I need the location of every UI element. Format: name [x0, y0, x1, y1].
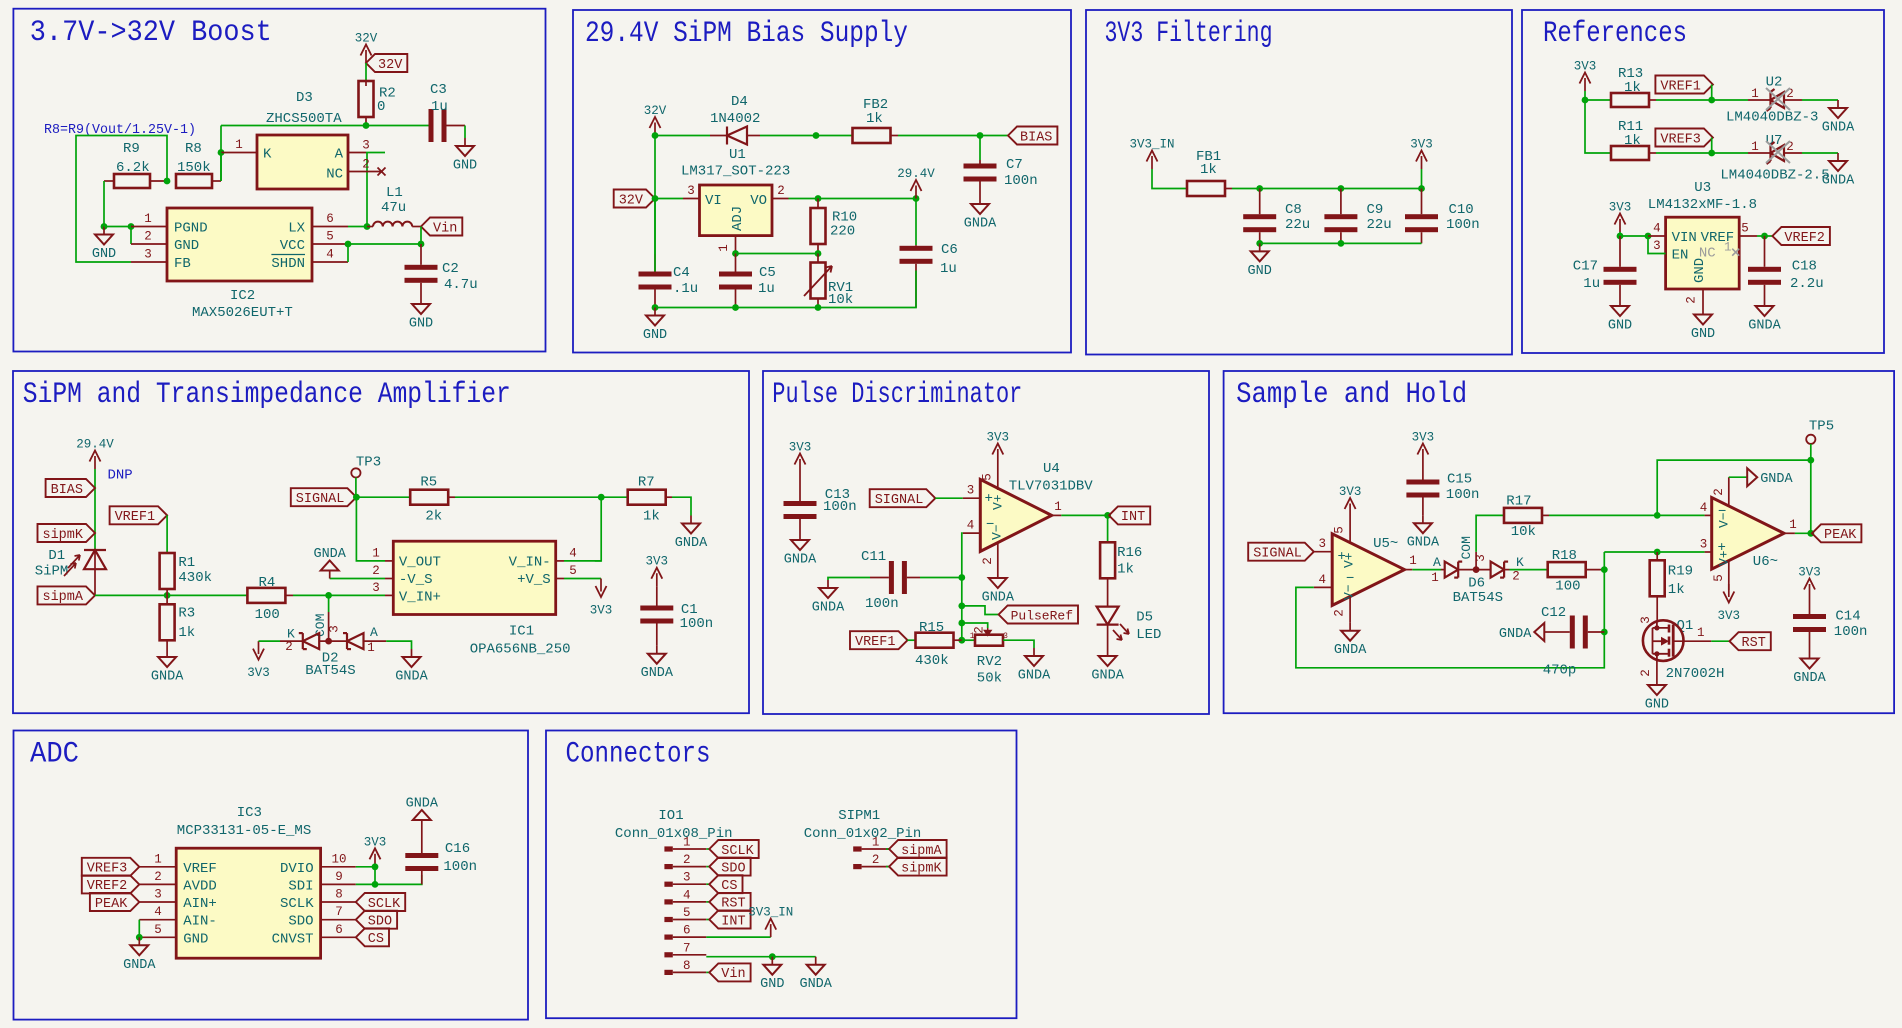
svg-text:V+: V+ [1342, 552, 1357, 568]
global label INT [1109, 506, 1150, 524]
capacitor C18 2.2u [1764, 236, 1766, 267]
pin 5 of IC2 [312, 243, 348, 245]
svg-text:LM4040DBZ-3: LM4040DBZ-3 [1726, 110, 1818, 126]
junction U3 VIN [1617, 233, 1624, 240]
svg-text:LX: LX [288, 221, 305, 237]
svg-text:GNDA: GNDA [395, 670, 428, 685]
wire ADJ row [736, 253, 819, 255]
svg-text:C3: C3 [430, 82, 447, 98]
svg-text:32V: 32V [378, 58, 403, 73]
svg-text:100n: 100n [865, 596, 899, 612]
svg-text:3V3: 3V3 [1609, 201, 1632, 215]
svg-text:C12: C12 [1541, 605, 1566, 621]
svg-text:ZHCS500TA: ZHCS500TA [266, 111, 342, 127]
svg-text:VREF2: VREF2 [1784, 231, 1825, 246]
svg-text:10k: 10k [1511, 524, 1536, 540]
global label 32V [366, 54, 407, 72]
wire 32V bus [655, 135, 710, 137]
wire inverting column [962, 533, 963, 640]
ground GNDA at U5 [1349, 623, 1351, 631]
section frame: ADC [14, 731, 529, 1020]
svg-text:2: 2 [285, 640, 293, 654]
svg-text:C9: C9 [1367, 202, 1384, 218]
svg-text:SCLK: SCLK [721, 844, 754, 859]
wire pin2 to GNDA side [1729, 476, 1747, 478]
junction C5 gnd [732, 304, 739, 311]
wire TP5 column to PEAK [1810, 460, 1812, 533]
ground GNDA at C18 [1764, 298, 1766, 306]
svg-text:SHDN: SHDN [271, 256, 305, 272]
svg-text:GND: GND [92, 247, 116, 262]
junction R2/C3 rail [363, 122, 370, 129]
pin 1 of U4 [1052, 514, 1062, 516]
pin 9 of IC3 [321, 883, 356, 885]
svg-text:R5: R5 [420, 475, 437, 491]
svg-text:U1: U1 [729, 147, 746, 163]
svg-text:RST: RST [721, 897, 745, 912]
trimmer RV2 50k [975, 635, 1003, 646]
svg-text:V_IN-: V_IN- [509, 554, 551, 570]
pin 5 of U4 [997, 462, 999, 490]
svg-text:100n: 100n [1004, 173, 1038, 189]
pin 6 of IO1 [664, 935, 672, 940]
junction C4 gnd [652, 304, 659, 311]
svg-text:C2: C2 [442, 261, 459, 277]
global label SIGNAL tia [291, 488, 357, 506]
pin 5 of U6 [1728, 561, 1730, 590]
ground GND at IO1 [771, 957, 773, 965]
svg-text:1u: 1u [1583, 276, 1600, 292]
power flag 3V3_IN [1151, 156, 1153, 169]
svg-text:GND: GND [174, 238, 199, 254]
svg-text:C11: C11 [861, 549, 886, 565]
wire R8 to K node [220, 153, 222, 182]
global label Vin [421, 218, 462, 236]
svg-text:RV2: RV2 [977, 654, 1002, 670]
svg-text:V−: V− [1342, 584, 1357, 600]
ground GNDA at R3 [166, 649, 168, 657]
wire IO1 label stubs [706, 848, 709, 850]
svg-text:GNDA: GNDA [1822, 174, 1855, 189]
svg-text:SDI: SDI [288, 878, 313, 894]
wire R17 to U6 pin4 [1549, 514, 1705, 516]
svg-text:INT: INT [1121, 510, 1145, 525]
wire LX to L1 [348, 226, 367, 228]
svg-text:R16: R16 [1117, 545, 1142, 561]
svg-text:VIN: VIN [1672, 230, 1697, 246]
pin 8 of IO1 [664, 970, 672, 975]
pin 1 of SIPM1 [853, 846, 861, 851]
svg-text:CNVST: CNVST [272, 931, 314, 947]
pin 1 of Q1 gate [1673, 640, 1711, 642]
svg-text:Conn_01x08_Pin: Conn_01x08_Pin [615, 826, 733, 842]
ground GNDA at C13 [799, 532, 801, 540]
wire 32V to C4 [654, 199, 656, 272]
svg-text:7: 7 [683, 941, 691, 955]
wire R4 to V_IN+ [293, 594, 385, 596]
junction R18/C12 column [1601, 566, 1608, 573]
svg-text:LM317_SOT-223: LM317_SOT-223 [681, 164, 790, 180]
svg-text:29.4V: 29.4V [897, 167, 935, 181]
ground GNDA at C7 [979, 196, 981, 204]
svg-text:GNDA: GNDA [1407, 536, 1440, 551]
svg-text:22u: 22u [1367, 217, 1392, 233]
capacitor C8 22u [1259, 189, 1261, 215]
global label RST [1730, 632, 1771, 650]
ground GNDA at -V_S [330, 578, 385, 580]
svg-text:4.7u: 4.7u [444, 277, 478, 293]
section frame: SiPM and Transimpedance Amplifier [13, 371, 749, 713]
capacitor C10 100n [1421, 189, 1423, 215]
svg-text:INT: INT [721, 914, 745, 929]
svg-text:GNDA: GNDA [982, 591, 1015, 606]
svg-text:2: 2 [372, 564, 380, 578]
svg-text:3V3: 3V3 [1574, 60, 1597, 74]
junction pin1/pin2 [128, 223, 135, 230]
wire R7 to GNDA [672, 497, 691, 515]
svg-text:sipmA: sipmA [901, 844, 942, 859]
junction R10/RV1 [815, 250, 822, 257]
ground GNDA at C14 [1809, 651, 1811, 659]
ground GNDA at RV2 [1033, 648, 1035, 656]
svg-text:GNDA: GNDA [964, 217, 997, 232]
pin 1 of IC2 [131, 226, 167, 228]
svg-text:COM: COM [313, 614, 328, 637]
ground GNDA at IC3 [138, 937, 140, 945]
svg-text:1: 1 [1751, 87, 1759, 101]
ground GNDA at D5 [1107, 648, 1109, 656]
svg-text:C7: C7 [1006, 157, 1023, 173]
pin 2 of D3 (NC) [348, 171, 381, 173]
wire U4 out to INT [1061, 514, 1109, 516]
capacitor C9 22u [1340, 189, 1342, 215]
svg-text:V−: V− [990, 524, 1005, 540]
svg-text:GNDA: GNDA [1018, 669, 1051, 684]
pin 5 of IC3 [139, 936, 176, 938]
svg-text:OPA656NB_250: OPA656NB_250 [470, 642, 571, 658]
global label sipmK [38, 524, 96, 542]
svg-text:R3: R3 [178, 606, 195, 622]
svg-text:BAT54S: BAT54S [1453, 590, 1503, 606]
capacitor C1 100n [656, 586, 658, 605]
no-connect x on D3 pin 2 [378, 168, 386, 176]
ground GNDA at U4 [997, 570, 999, 578]
svg-text:2: 2 [1685, 296, 1699, 304]
svg-text:2k: 2k [425, 509, 442, 525]
svg-text:1k: 1k [1668, 582, 1685, 598]
wire R18 to U6 pin3 [1604, 551, 1704, 553]
global label sipmK io [889, 858, 947, 876]
pin 6 of IC3 [321, 936, 356, 938]
svg-text:C16: C16 [445, 841, 470, 857]
svg-text:GNDA: GNDA [1760, 472, 1793, 487]
svg-text:R9: R9 [123, 141, 140, 157]
svg-text:D4: D4 [731, 94, 748, 110]
svg-text:2: 2 [1639, 669, 1653, 677]
wire D2 COM drop [328, 595, 330, 612]
svg-text:32V: 32V [644, 104, 667, 118]
svg-text:-V_S: -V_S [399, 572, 433, 588]
svg-text:2: 2 [981, 557, 995, 565]
resistor R1 430k [160, 553, 175, 589]
wire VREF3 drop [1711, 138, 1713, 154]
svg-text:7: 7 [335, 905, 343, 919]
ground GND at C3 [464, 138, 466, 146]
ground GNDA at U7 [1837, 153, 1839, 161]
svg-text:3: 3 [1474, 554, 1488, 562]
wire VI stub [655, 198, 683, 200]
svg-text:L1: L1 [386, 185, 403, 201]
svg-text:100n: 100n [1834, 624, 1868, 640]
svg-text:1k: 1k [178, 625, 195, 641]
svg-text:1: 1 [154, 852, 162, 866]
pin 3 of IC1 [385, 594, 393, 596]
svg-text:2: 2 [1512, 570, 1520, 584]
junction C10 top [1418, 185, 1425, 192]
pin 3 of IC2 [131, 261, 167, 263]
capacitor C16 100n [421, 871, 423, 884]
wire R9 left to PGND node [103, 181, 105, 227]
pin 5 of IC1 [556, 578, 564, 580]
svg-text:100: 100 [255, 607, 280, 623]
pin 4 of IC3 [139, 919, 176, 921]
svg-text:29.4V SiPM Bias Supply: 29.4V SiPM Bias Supply [585, 17, 908, 51]
svg-text:GNDA: GNDA [799, 977, 832, 992]
ground GNDA at R7 [690, 516, 692, 524]
svg-text:GNDA: GNDA [1499, 627, 1532, 642]
svg-text:C8: C8 [1285, 202, 1302, 218]
svg-text:GND: GND [1248, 264, 1272, 279]
wire U6 out to PEAK [1795, 532, 1812, 534]
capacitor C3 [447, 125, 466, 127]
wire pin4 stub [564, 560, 601, 562]
junction R15/RV2 row [958, 637, 965, 644]
wire VREF1 drop [1711, 85, 1713, 101]
wire R15 to RV2 [962, 639, 976, 641]
hier label VREF3 [1655, 129, 1713, 147]
svg-text:5: 5 [569, 564, 577, 578]
svg-text:3V3: 3V3 [247, 666, 270, 680]
section frame: 29.4V SiPM Bias Supply [573, 10, 1071, 353]
wire PulseRef tap [962, 606, 999, 615]
wire VREF1 to R15 [908, 639, 916, 641]
svg-text:100n: 100n [1446, 487, 1480, 503]
svg-text:5: 5 [1333, 526, 1347, 534]
wire C11 to column [920, 577, 962, 579]
global label SIGNAL sh [1248, 543, 1314, 561]
wire D4 to FB2 [760, 135, 852, 137]
global label SIGNAL disc [870, 489, 936, 507]
wire ground bus bottom [655, 271, 916, 308]
svg-text:GND: GND [183, 931, 208, 947]
svg-text:100n: 100n [823, 499, 857, 515]
svg-text:VREF1: VREF1 [115, 510, 156, 525]
junction D2 COM [325, 638, 332, 645]
svg-text:2: 2 [154, 870, 162, 884]
svg-text:2: 2 [1712, 488, 1726, 496]
svg-text:5: 5 [1741, 222, 1749, 236]
svg-text:PGND: PGND [174, 221, 208, 237]
svg-text:1: 1 [872, 836, 880, 850]
capacitor C7 100n [979, 160, 981, 164]
svg-text:GNDA: GNDA [406, 797, 439, 812]
svg-text:Vin: Vin [721, 967, 745, 982]
global label Vin io [709, 963, 750, 981]
svg-text:GNDA: GNDA [784, 553, 817, 568]
junction R9/R8 [164, 178, 171, 185]
svg-text:FB: FB [174, 256, 191, 272]
global label RST io [709, 893, 750, 911]
svg-text:C10: C10 [1449, 202, 1474, 218]
power flag 3V3 at U5 [1349, 504, 1351, 517]
pin 4 of U3 [1648, 235, 1666, 237]
svg-text:COM: COM [1459, 536, 1474, 559]
svg-text:10k: 10k [828, 292, 853, 308]
svg-text:SDO: SDO [368, 915, 392, 930]
svg-text:LM4040DBZ-2.5: LM4040DBZ-2.5 [1720, 168, 1829, 184]
svg-text:GND: GND [643, 328, 667, 343]
capacitor C15 100n [1422, 462, 1424, 480]
svg-text:3: 3 [328, 625, 342, 633]
global label SDO io [709, 858, 750, 876]
svg-text:1u: 1u [758, 281, 775, 297]
svg-text:430k: 430k [915, 653, 949, 669]
svg-text:TLV7031DBV: TLV7031DBV [1009, 479, 1094, 495]
svg-text:1: 1 [367, 641, 375, 655]
pin 5 of U5 [1349, 517, 1351, 545]
ground GND at C17 [1619, 298, 1621, 306]
power flag 3V3 down at IC1 [600, 579, 602, 592]
svg-text:4: 4 [967, 519, 975, 533]
svg-text:SiPM and Transimpedance Amplif: SiPM and Transimpedance Amplifier [23, 378, 511, 412]
power flag 3V3 at U4 [997, 449, 999, 462]
svg-text:3V3_IN: 3V3_IN [1129, 138, 1174, 152]
global label CS adc [356, 928, 389, 946]
svg-text:NC: NC [326, 167, 343, 183]
wire R5 to R7 [455, 496, 628, 498]
power flag 32V [365, 50, 367, 63]
svg-text:RST: RST [1742, 636, 1766, 651]
svg-text:29.4V: 29.4V [76, 438, 114, 452]
svg-text:V+: V+ [991, 494, 1006, 510]
svg-text:U5~: U5~ [1373, 536, 1398, 552]
svg-text:GNDA: GNDA [313, 547, 346, 562]
power flag 32V input [654, 123, 656, 136]
svg-text:A: A [335, 147, 344, 163]
svg-text:3V3: 3V3 [789, 441, 812, 455]
pin 1 of U5 [1405, 569, 1413, 571]
wire VCC to SHDN [347, 244, 349, 262]
svg-text:1: 1 [683, 836, 691, 850]
wire C3 to GND [464, 126, 466, 139]
power flag 3V3 at C1 [656, 573, 658, 586]
capacitor C14 100n [1809, 597, 1811, 614]
svg-text:DNP: DNP [108, 468, 133, 484]
svg-text:1: 1 [1751, 140, 1759, 154]
pin 2 of SIPM1 [853, 864, 861, 869]
capacitor C13 100n [799, 472, 801, 501]
pin 4 of IO1 [664, 899, 672, 904]
power flag 3V3 at DVIO [374, 854, 376, 867]
pin 6 of IC2 [312, 226, 348, 228]
pin 4 of U4 [963, 532, 981, 534]
svg-text:3: 3 [1639, 616, 1653, 624]
ic IC2 MAX5026EUT+T [167, 208, 312, 281]
svg-text:IO1: IO1 [658, 808, 683, 824]
opamp U6 [1712, 498, 1784, 570]
svg-text:V_OUT: V_OUT [399, 554, 441, 570]
power flag 3V3_IN io [770, 924, 772, 937]
wire U7 to GNDA [1802, 152, 1838, 154]
wire 3V3 to D2 [259, 640, 281, 642]
svg-text:EN: EN [1672, 248, 1689, 264]
pin 3 of IO1 [664, 882, 672, 887]
svg-text:References: References [1543, 17, 1687, 51]
svg-text:SIGNAL: SIGNAL [296, 492, 345, 507]
pin 2 of U4 [997, 542, 999, 570]
svg-text:22u: 22u [1285, 217, 1310, 233]
svg-text:1: 1 [1054, 500, 1062, 514]
junction AIN-/GND [136, 934, 143, 941]
global label sipmA [38, 586, 96, 604]
svg-text:GNDA: GNDA [812, 601, 845, 616]
svg-text:V−: V− [1717, 512, 1732, 528]
svg-text:ADC: ADC [30, 738, 79, 772]
svg-text:AIN-: AIN- [183, 914, 217, 930]
junction C11 [958, 574, 965, 581]
ground GNDA flipped at C16 [421, 828, 423, 853]
svg-text:D1: D1 [48, 548, 65, 564]
wire C11 left to GNDA [828, 578, 870, 581]
capacitor C17 1u [1619, 236, 1621, 267]
svg-text:BAT54S: BAT54S [305, 663, 355, 679]
global label CS io [709, 875, 742, 893]
svg-text:1N4002: 1N4002 [710, 111, 760, 127]
section frame: Pulse Discriminator [763, 371, 1209, 714]
svg-text:sipmK: sipmK [42, 528, 83, 543]
power flag 29.4V sipm [94, 456, 96, 469]
ground GNDA at U2 [1837, 100, 1839, 108]
svg-text:R19: R19 [1668, 563, 1693, 579]
power flag 3V3 down at D2 [258, 641, 260, 654]
svg-text:4: 4 [1653, 222, 1661, 236]
global label PEAK [1812, 524, 1861, 542]
junction 29.4V column [913, 195, 920, 202]
ground GND filtering [1259, 243, 1261, 251]
svg-text:GND: GND [1692, 258, 1708, 283]
svg-text:2: 2 [362, 158, 370, 172]
junction SIGNAL node [353, 494, 360, 501]
wire 3V3 rail [1232, 188, 1422, 190]
wire pin2 drop [130, 227, 132, 245]
wire R11 to U7 [1656, 152, 1748, 154]
svg-text:1: 1 [1697, 626, 1705, 640]
svg-text:TP3: TP3 [356, 454, 381, 470]
svg-text:MAX5026EUT+T: MAX5026EUT+T [192, 305, 293, 321]
svg-text:D6: D6 [1468, 575, 1485, 591]
wire VO rail [789, 198, 917, 200]
svg-text:1: 1 [970, 632, 975, 641]
junction feedback column [598, 494, 605, 501]
junction 32V top [652, 132, 659, 139]
hier label VREF3 adc [82, 858, 140, 876]
pin 4 of U5 [1314, 586, 1332, 588]
svg-text:V_IN+: V_IN+ [399, 590, 441, 606]
junction PGND/GND ground node [101, 223, 108, 230]
svg-text:430k: 430k [178, 570, 212, 586]
svg-text:SIGNAL: SIGNAL [875, 493, 924, 508]
section frame: 3V3 Filtering [1086, 10, 1512, 355]
